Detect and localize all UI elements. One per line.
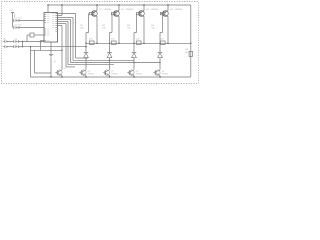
- svg-text:2N3904: 2N3904: [111, 73, 118, 75]
- transistor Q1 (PNP 2N3906): [89, 11, 97, 17]
- LED D4: [158, 43, 163, 62]
- wire rail to Q2 emitter: [118, 4, 119, 10]
- label R2 base resistor: [102, 25, 106, 30]
- wire net row2 long: [23, 46, 87, 47]
- wire LED D1 to Q6: [85, 58, 87, 70]
- svg-text:Q2 - 2N3906: Q2 - 2N3906: [121, 9, 134, 11]
- wire Q3 base down: [134, 14, 137, 44]
- label R3 base resistor: [127, 25, 131, 30]
- wire Q1 base down: [86, 14, 89, 44]
- wire U1 pin to row line 3: [58, 20, 161, 64]
- wire Q2 base down: [110, 14, 113, 44]
- wire row1 to U1: [23, 41, 45, 43]
- wire VCC top rail: [48, 4, 191, 6]
- ground symbol under U1: [49, 55, 53, 57]
- transistor Q4 (PNP 2N3906): [160, 11, 168, 17]
- diode D5: [14, 39, 23, 43]
- sheet border (dashed): [2, 2, 199, 84]
- wire U1 pin to row line 1: [58, 14, 89, 59]
- capacitor C1: [14, 18, 23, 23]
- label Q6: [88, 71, 95, 76]
- label Q2 2N3906: [121, 9, 134, 11]
- label Q4 2N3906: [170, 9, 183, 11]
- wire Q9 emitter to rail: [159, 76, 160, 78]
- wire hook to y73: [35, 50, 52, 73]
- wire U1 VDD to rail: [47, 4, 48, 12]
- wire junction vertical: [22, 42, 24, 47]
- wire rail stub to U1 pin: [58, 4, 63, 15]
- svg-text:Q4 - 2N3906: Q4 - 2N3906: [170, 9, 183, 11]
- power flag +5V: [9, 10, 15, 27]
- wire rail to Q4 emitter: [167, 4, 168, 10]
- wire Q1 collector down: [96, 16, 98, 43]
- wire U1 pin to row line 2: [58, 18, 135, 62]
- wire ground to rail: [50, 58, 51, 78]
- wire U1 pin hook down: [41, 41, 45, 51]
- label R8 value: [160, 39, 164, 41]
- svg-text:2N3904: 2N3904: [136, 73, 143, 75]
- diode D6: [14, 44, 23, 48]
- wire anode bus horizontal: [86, 42, 191, 44]
- wire C2 to U1: [19, 27, 44, 29]
- transistor Q9 (NPN 2N3904): [153, 70, 160, 76]
- label U1: [40, 42, 44, 44]
- svg-text:2N3904: 2N3904: [88, 73, 95, 75]
- resistor R9 on right rail: [185, 49, 193, 57]
- wire Q4 collector down: [167, 16, 169, 43]
- transistor Q2 (PNP 2N3906): [111, 11, 119, 17]
- label R5 value: [89, 39, 93, 41]
- wire to ground rail: [30, 47, 32, 77]
- label near U1 bottom: [54, 61, 57, 63]
- label R7 value: [136, 39, 140, 41]
- LED D2: [107, 43, 112, 60]
- svg-text:Q3 - 2N3906: Q3 - 2N3906: [146, 9, 159, 11]
- label Q8: [136, 71, 143, 76]
- wire battery row2: [7, 46, 14, 48]
- wire U1 pin to net E: [58, 24, 76, 67]
- wire U1 VSS down: [50, 42, 52, 54]
- wire net F long: [31, 49, 63, 51]
- svg-text:+5V: +5V: [9, 10, 13, 12]
- wire C1 to U1: [19, 20, 44, 22]
- resistor R8 segment: [159, 41, 168, 44]
- transistor Q7 (NPN 2N3904): [103, 70, 110, 76]
- label Q3 2N3906: [146, 9, 159, 11]
- transistor Q3 (PNP 2N3906): [136, 11, 144, 17]
- wire Q5 emitter to rail: [61, 76, 62, 78]
- label Q5: [64, 68, 68, 70]
- transistor Q5 (NPN): [55, 70, 62, 76]
- label Q1 2N3906: [99, 9, 112, 11]
- label R6 value: [111, 39, 115, 41]
- wire right rail vertical: [190, 5, 191, 77]
- LED D1: [84, 43, 89, 58]
- wire battery row1: [7, 41, 14, 43]
- svg-text:Q1 - 2N3906: Q1 - 2N3906: [99, 9, 112, 11]
- label Q7: [111, 71, 118, 76]
- label R1 base resistor: [80, 25, 84, 30]
- resistor R6 segment: [109, 41, 120, 44]
- wire Q7 emitter to rail: [109, 76, 110, 78]
- wire Q8 emitter to rail: [133, 76, 134, 78]
- wire U1 pin to Q5 collector: [58, 26, 63, 70]
- svg-text:2N3904: 2N3904: [162, 73, 169, 75]
- capacitor C2: [14, 25, 23, 30]
- wire rail to Q1 emitter: [96, 4, 97, 10]
- transistor Q6 (NPN 2N3904): [79, 70, 86, 76]
- transistor Q8 (NPN 2N3904): [127, 70, 134, 76]
- wire LED D4 to Q9: [159, 63, 161, 70]
- wire Q6 emitter to rail: [85, 76, 86, 78]
- LED D3: [132, 43, 137, 62]
- wire Q4 base down: [160, 14, 163, 44]
- wire ground bottom rail: [31, 76, 191, 78]
- crystal X1: [27, 33, 44, 42]
- label Q9: [162, 71, 169, 76]
- battery B1: [3, 39, 7, 49]
- wire rail to Q3 emitter: [143, 4, 144, 10]
- wire U1 pin to row line 4: [58, 22, 115, 65]
- resistor R7 segment: [133, 41, 144, 44]
- wire Q3 collector down: [143, 16, 145, 43]
- wire LED D3 to Q8: [133, 63, 135, 70]
- resistor R5 segment: [85, 41, 97, 44]
- wire LED D2 to Q7: [109, 60, 111, 70]
- IC U1 microcontroller: [44, 13, 58, 43]
- label R4 base resistor: [151, 25, 155, 30]
- wire Q2 collector down: [118, 16, 120, 43]
